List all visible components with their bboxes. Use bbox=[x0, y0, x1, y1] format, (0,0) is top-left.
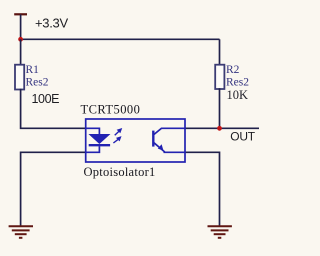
wire R1 to LED anode pin bbox=[21, 89, 86, 129]
junction dot OUT node bbox=[217, 126, 222, 131]
svg-text:TCRT5000: TCRT5000 bbox=[81, 103, 141, 117]
svg-text:Optoisolator1: Optoisolator1 bbox=[84, 165, 156, 179]
svg-text:Res2: Res2 bbox=[26, 76, 49, 88]
transistor collector lead bbox=[153, 128, 185, 135]
LED anode lead bbox=[86, 128, 99, 134]
resistor R2 bbox=[215, 65, 224, 89]
wire collector to OUT stub bbox=[185, 127, 259, 129]
wire +3.3V to R1 bbox=[20, 39, 22, 66]
LED cathode bar bbox=[89, 144, 110, 146]
emission arrow 2 bbox=[115, 129, 122, 136]
emission arrow 1 bbox=[113, 137, 120, 143]
svg-text:+3.3V: +3.3V bbox=[35, 16, 68, 31]
wire R2 down to OUT node bbox=[219, 88, 221, 128]
wire emitter to ground bbox=[185, 152, 220, 225]
wire LED cathode to ground bbox=[21, 152, 86, 225]
svg-text:Res2: Res2 bbox=[226, 76, 249, 88]
LED cathode lead bbox=[86, 146, 99, 152]
transistor emitter arrowhead bbox=[158, 144, 164, 150]
transistor emitter lead bbox=[153, 142, 185, 152]
svg-text:OUT: OUT bbox=[230, 129, 255, 143]
svg-text:100E: 100E bbox=[32, 92, 60, 106]
wire rail down to R2 bbox=[219, 39, 221, 66]
ground left bbox=[9, 226, 33, 238]
resistor R1 bbox=[15, 65, 24, 90]
ground right bbox=[208, 226, 232, 238]
op-box U1 TCRT5000 body bbox=[86, 119, 185, 162]
svg-text:R2: R2 bbox=[226, 64, 240, 76]
transistor Q base bar bbox=[152, 131, 154, 147]
power bar +3.3V bbox=[14, 13, 27, 15]
wire top rail bbox=[21, 38, 220, 40]
wire power stem bbox=[20, 15, 22, 40]
svg-text:R1: R1 bbox=[26, 64, 40, 76]
svg-text:10K: 10K bbox=[227, 88, 249, 102]
junction dot left bbox=[18, 37, 23, 42]
LED D triangle bbox=[89, 134, 110, 143]
